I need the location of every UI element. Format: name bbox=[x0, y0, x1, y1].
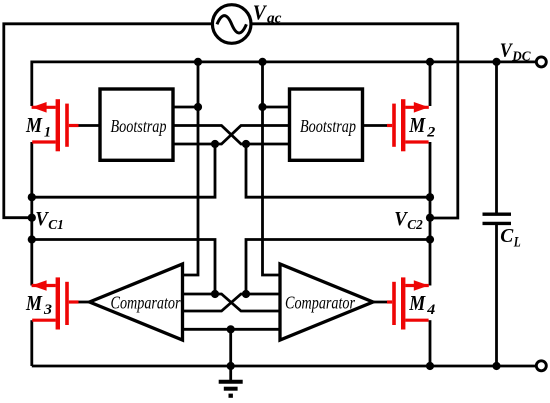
transistor M3 bbox=[32, 277, 79, 329]
wire: left bootstrap top output to node x198 bbox=[173, 106, 198, 109]
wire: M3 source to ground rail bbox=[30, 320, 33, 366]
ground bbox=[219, 382, 243, 396]
label M4 bbox=[408, 291, 435, 318]
junction: VC1 lower bbox=[28, 235, 36, 243]
wire: M3 gate lead bbox=[79, 301, 91, 304]
wire: ground rail (bottom) bbox=[32, 365, 536, 368]
junction: bootstrap crossover right tap bbox=[242, 140, 250, 148]
transistor M2 bbox=[387, 99, 429, 151]
bootstrap block U2 (right) bbox=[290, 89, 363, 160]
junction: ground rail / CL bbox=[492, 362, 500, 370]
label VC1 bbox=[35, 208, 64, 233]
wire: left comparator mid-lower to right comparator mid-upper (crossover) bbox=[183, 294, 281, 311]
wire: VC2 leg (M2 source to M4 drain) bbox=[429, 142, 432, 286]
bootstrap block U1 (left) bbox=[100, 89, 173, 160]
svg-text:C1: C1 bbox=[48, 218, 64, 233]
svg-text:M: M bbox=[25, 291, 43, 315]
wire: VC2 to comparator crossover tap bbox=[246, 240, 430, 295]
svg-text:V: V bbox=[253, 1, 268, 25]
wire: VC2 to bootstrap crossover tap bbox=[246, 144, 430, 197]
svg-text:Comparator: Comparator bbox=[285, 293, 356, 313]
junction: ground rail / M4 leg bbox=[426, 362, 434, 370]
label CL bbox=[500, 225, 521, 250]
junction: bootstrap crossover left tap bbox=[211, 140, 219, 148]
transistor M1 bbox=[32, 99, 79, 151]
junction: VDC rail / x262 bbox=[258, 58, 266, 66]
junction: VC1 upper bbox=[28, 193, 36, 201]
svg-text:DC: DC bbox=[511, 48, 531, 63]
junction: VDC rail / x198 bbox=[194, 58, 202, 66]
svg-text:3: 3 bbox=[43, 302, 53, 318]
junction: VDC rail / M2 leg bbox=[426, 58, 434, 66]
junction: VC2 lower bbox=[426, 235, 434, 243]
terminal ground output (open circle) bbox=[536, 361, 546, 371]
wire: VC1 to bootstrap crossover tap bbox=[32, 144, 215, 197]
junction: comparator ground tie bbox=[227, 325, 235, 333]
wire: right bootstrap top output to node x262 bbox=[263, 106, 290, 109]
svg-text:1: 1 bbox=[44, 125, 51, 141]
wire: VDC tap down to left comparator top input bbox=[183, 62, 199, 275]
svg-text:C2: C2 bbox=[407, 218, 423, 233]
label Vac bbox=[253, 1, 282, 27]
svg-text:2: 2 bbox=[426, 125, 436, 141]
svg-text:V: V bbox=[394, 208, 408, 230]
wire: left bootstrap middle to right bootstrap bottom (crossover) bbox=[173, 126, 290, 145]
wire: M1 gate lead bbox=[77, 124, 101, 127]
wire: Vac right loop (top wire down to VC2) bbox=[251, 24, 458, 218]
svg-text:Comparator: Comparator bbox=[111, 293, 182, 313]
wire: M4 source to ground rail bbox=[429, 320, 432, 366]
wire: ground drop bbox=[229, 329, 232, 381]
wire: VC1 leg (M1 source to M3 drain) bbox=[30, 142, 33, 286]
junction: left bootstrap top output bbox=[194, 103, 202, 111]
junction: VDC rail / CL bbox=[492, 58, 500, 66]
svg-text:M: M bbox=[408, 113, 426, 137]
label M3 bbox=[25, 291, 52, 318]
junction: comparator crossover left tap bbox=[211, 290, 219, 298]
wire: M4 gate lead bbox=[370, 301, 389, 304]
wire: CL top leg bbox=[495, 62, 498, 214]
label M2 bbox=[408, 113, 435, 140]
junction: comparator crossover right tap bbox=[242, 290, 250, 298]
wire: VDC rail bbox=[32, 62, 536, 106]
svg-text:M: M bbox=[408, 291, 426, 315]
ac source Vac bbox=[212, 5, 251, 44]
wire: VC1 to comparator crossover tap bbox=[32, 240, 215, 295]
terminal VDC (open circle) bbox=[536, 57, 546, 67]
svg-text:4: 4 bbox=[426, 302, 436, 318]
label VDC bbox=[500, 41, 532, 64]
junction: ground rail / ground drop bbox=[227, 362, 235, 370]
comparator U4 (right, output points right) bbox=[280, 264, 373, 340]
wire: left bootstrap bottom to right bootstrap middle (crossover) bbox=[173, 126, 290, 145]
svg-text:Bootstrap: Bootstrap bbox=[300, 116, 356, 136]
wire: VDC tap down to right comparator top input bbox=[263, 62, 281, 275]
junction: VC1 middle bbox=[28, 214, 36, 222]
label M1 bbox=[25, 113, 51, 140]
svg-text:C: C bbox=[500, 225, 513, 247]
wire: M2 gate lead bbox=[362, 124, 389, 127]
svg-text:ac: ac bbox=[267, 10, 282, 26]
wire: comparator common tie to ground bbox=[183, 328, 281, 331]
junction: right bootstrap top output bbox=[258, 103, 266, 111]
svg-text:L: L bbox=[513, 234, 521, 250]
svg-text:Bootstrap: Bootstrap bbox=[111, 116, 167, 136]
junction: VC2 upper bbox=[426, 193, 434, 201]
svg-text:M: M bbox=[25, 113, 43, 137]
wire: CL bottom leg bbox=[495, 223, 498, 366]
svg-text:V: V bbox=[35, 208, 49, 230]
transistor M4 bbox=[387, 277, 429, 329]
wire: M2 drain to VDC rail bbox=[429, 62, 432, 106]
capacitor CL bbox=[483, 214, 512, 223]
label VC2 bbox=[394, 208, 423, 233]
junction: VC2 middle bbox=[426, 214, 434, 222]
comparator U3 (left, output points left) bbox=[90, 264, 183, 340]
wire: Vac left loop (top wire to VC1) bbox=[4, 24, 213, 218]
wire: left comparator mid-upper to right comparator mid-lower (crossover) bbox=[183, 294, 281, 311]
